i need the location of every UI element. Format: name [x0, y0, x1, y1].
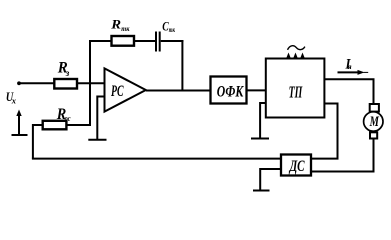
- pin TP ac 3: [302, 56, 304, 59]
- ground DS stub: [260, 169, 281, 190]
- ground TP stub: [260, 103, 266, 138]
- source U_x base bar: [12, 134, 28, 136]
- brush bottom: [370, 132, 377, 138]
- capacitor C_tk plate left: [155, 32, 157, 52]
- block OFK: [211, 77, 247, 104]
- pin TP ac 1: [288, 56, 290, 59]
- wire R_oc left down: [33, 125, 43, 159]
- source U_x arrowhead: [16, 110, 21, 117]
- svg-text:тк: тк: [169, 25, 175, 34]
- svg-text:з: з: [65, 68, 70, 78]
- current arrow I_ya: [338, 71, 359, 73]
- wire TP to motor top: [324, 79, 373, 103]
- wire feedback top left: [89, 40, 155, 42]
- op-amp U1 triangle: [105, 68, 146, 111]
- brush top: [370, 104, 379, 112]
- wire feedback top right: [161, 40, 184, 42]
- wire bottom feedback long: [32, 158, 281, 160]
- wire feedback left vertical: [89, 41, 91, 125]
- node input terminal: [17, 81, 21, 85]
- block DS: [281, 155, 311, 176]
- ground op-amp: [88, 139, 106, 141]
- resistor R_oc: [43, 121, 67, 130]
- wire input horizontal: [19, 82, 105, 84]
- svg-text:ос: ос: [65, 114, 71, 123]
- pin TP ac 2: [295, 56, 297, 59]
- wire op-amp noninverting stub: [97, 97, 104, 140]
- svg-text:ДС: ДС: [288, 158, 305, 175]
- resistor R_z: [54, 79, 77, 89]
- wire DS to TP return: [311, 104, 338, 159]
- wire op-amp output: [146, 90, 211, 92]
- svg-text:я: я: [347, 62, 352, 71]
- capacitor C_tk plate right: [159, 32, 161, 52]
- svg-text:R: R: [110, 16, 121, 31]
- svg-text:РС: РС: [110, 83, 123, 100]
- wire feedback right vertical: [181, 40, 183, 91]
- ground DS bar: [253, 190, 270, 192]
- wire R_oc right to node: [66, 124, 91, 126]
- svg-text:М: М: [369, 114, 380, 130]
- resistor R_tk: [112, 36, 135, 46]
- source U_x arrow line: [18, 114, 20, 135]
- motor M circle: [364, 112, 383, 131]
- block TP: [266, 59, 325, 118]
- wire motor bottom to DS: [311, 139, 374, 172]
- ac source tilde: [288, 46, 305, 50]
- svg-text:ТП: ТП: [289, 82, 303, 101]
- svg-text:тк: тк: [121, 24, 129, 33]
- ground TP bar: [251, 138, 269, 140]
- svg-text:ОФК: ОФК: [217, 83, 245, 100]
- wire OFK to TP: [247, 89, 266, 91]
- svg-text:x: x: [11, 96, 17, 106]
